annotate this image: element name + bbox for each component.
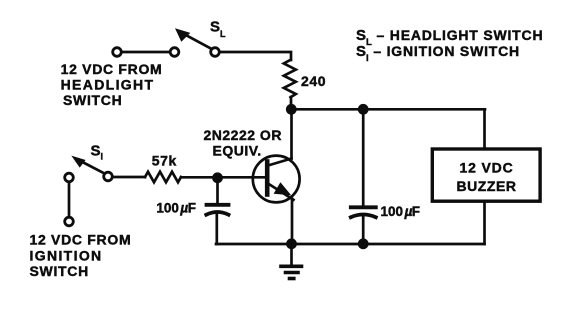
switch SL pole circle <box>211 48 220 57</box>
collector wire <box>290 113 293 159</box>
node junction dot left <box>286 104 297 115</box>
node junction dot base <box>212 172 223 183</box>
svg-text:12 VDC FROM: 12 VDC FROM <box>61 61 163 77</box>
svg-text:SWITCH: SWITCH <box>63 92 122 108</box>
svg-text:EQUIV.: EQUIV. <box>213 143 262 159</box>
label 12 VDC FROM IGNITION SWITCH <box>30 232 132 280</box>
svg-text:BUZZER: BUZZER <box>456 178 516 194</box>
wire SI pole to resistor 57k <box>113 176 145 179</box>
capacitor C1 lead bottom <box>215 215 218 245</box>
base wire to transistor <box>218 176 265 179</box>
buzzer box <box>432 149 540 201</box>
svg-text:100µF: 100µF <box>156 201 196 216</box>
svg-text:240: 240 <box>301 73 326 89</box>
buzzer lead bottom <box>483 201 486 244</box>
node junction dot ground <box>286 238 297 249</box>
switch SI arm with arrowhead <box>71 156 104 174</box>
wire resistor to node <box>290 97 293 109</box>
capacitor C2 lead bottom <box>362 217 365 244</box>
transistor Q1 collector diagonal <box>268 159 292 166</box>
svg-text:SWITCH: SWITCH <box>30 263 89 279</box>
switch SI terminal circle bottom <box>65 217 74 226</box>
wire to buzzer top <box>483 109 486 149</box>
svg-text:12 VDC FROM: 12 VDC FROM <box>30 232 132 248</box>
svg-text:100µF: 100µF <box>381 204 420 219</box>
svg-text:IGNITION: IGNITION <box>30 247 103 263</box>
ground symbol <box>281 244 302 279</box>
svg-text:2N2222 OR: 2N2222 OR <box>204 127 282 143</box>
capacitor C1 lead <box>216 178 219 203</box>
emitter wire down <box>291 199 294 244</box>
switch SI terminal circle top <box>65 173 74 182</box>
switch SI pole circle <box>104 172 113 181</box>
transistor Q1 base bar <box>265 162 270 195</box>
label 12 VDC FROM HEADLIGHT SWITCH <box>61 61 163 108</box>
wire resistor to node <box>181 176 218 179</box>
transistor Q1 emitter diagonal with arrow <box>268 182 294 200</box>
svg-text:HEADLIGHT: HEADLIGHT <box>61 77 155 93</box>
switch SL terminal circle left <box>113 48 122 57</box>
switch SL arm with arrowhead <box>175 28 211 49</box>
wire <box>122 51 170 54</box>
wire bottom rail <box>216 243 485 246</box>
wire <box>68 182 71 217</box>
node junction dot right <box>358 104 369 115</box>
svg-text:12 VDC: 12 VDC <box>459 160 513 176</box>
capacitor C2 100uF plates <box>351 207 376 217</box>
svg-text:57k: 57k <box>152 153 177 169</box>
wire to capacitor C2 <box>362 113 365 206</box>
wire top rail <box>291 108 485 111</box>
switch SL terminal circle mid <box>170 48 179 57</box>
label 2N2222 OR EQUIV. <box>204 127 282 159</box>
legend SL / SI <box>356 27 543 64</box>
wire from SL pole to resistor 240 <box>220 52 291 60</box>
resistor R2 57k (zigzag) <box>145 172 181 183</box>
label 12 VDC BUZZER <box>456 160 516 195</box>
transistor Q1 circle <box>253 156 300 203</box>
node junction dot cap2 <box>358 238 369 249</box>
capacitor C1 100uF plates <box>206 205 228 215</box>
resistor R1 240 (zigzag) <box>284 60 296 98</box>
